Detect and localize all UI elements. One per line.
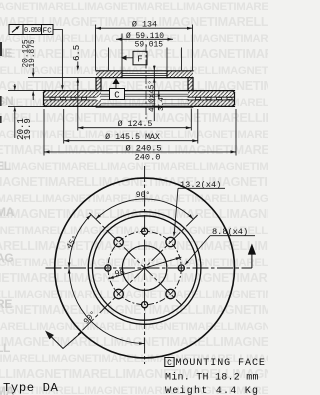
wire hat skirt bottom edge (96, 107, 193, 109)
arc 90 top arrows (96, 214, 101, 219)
hat outer circle (92, 216, 196, 320)
wire extension lines hub recess (109, 48, 182, 71)
leader 13.2 (174, 188, 225, 234)
dimension dia134 lines (96, 25, 193, 71)
leader 8.8 arrow (185, 261, 189, 266)
bolt hole 13.2 SE (166, 289, 175, 298)
wire hat wall right (188, 78, 193, 91)
hole 8.8 S (142, 302, 148, 308)
diagonal centreline NE-SW (78, 215, 198, 335)
bolt hole 13.2 SW (114, 289, 123, 298)
datum C triangle (112, 78, 119, 84)
svg-text:19.9: 19.9 (23, 118, 33, 140)
datum frame F box (133, 51, 147, 65)
hole 8.8 E (178, 265, 184, 271)
svg-text:C: C (114, 90, 120, 100)
dimension 98 line (108, 257, 181, 279)
dimension dia59 arrows (116, 38, 122, 41)
svg-text:MAGNETIMARELLIMAGNETIMARELLIMA: MAGNETIMARELLIMAGNETIMARELLIMAGNETIMAREL… (0, 193, 268, 205)
dimension 3.4 lines (158, 91, 160, 110)
hole 8.8 N (142, 228, 148, 234)
dimension dia124.5 lines (78, 78, 192, 131)
svg-text:MAGNETIMARELLIMAGNETIMARELLIMA: MAGNETIMARELLIMAGNETIMARELLIMAGNETIMAREL… (0, 289, 268, 301)
arc 45 arrows (68, 263, 71, 269)
dimension dia240 arrows (44, 150, 50, 153)
svg-text:AG: AG (0, 251, 13, 265)
svg-text:19.875: 19.875 (29, 39, 37, 67)
dimension 20.1 lines (8, 84, 44, 138)
svg-text:GN: GN (0, 94, 13, 108)
bolt hole 13.2 NE (166, 237, 175, 246)
vent vanes in slot (50, 97, 55, 99)
svg-text:MAGNETIMARELLIMAGNETIMARELLIMA: MAGNETIMARELLIMAGNETIMARELLIMAGNETIMAREL… (0, 271, 268, 285)
rotation leader (50, 333, 82, 349)
tolerance frame box (9, 25, 53, 35)
svg-text:LL: LL (0, 341, 10, 355)
svg-text:MAGNETIMARELLIMAGNETIMARELLIMA: MAGNETIMARELLIMAGNETIMARELLIMAGNETIMAREL… (0, 1, 268, 13)
svg-text:F: F (137, 55, 142, 65)
wire ring inboard friction surface (44, 105, 235, 107)
wire hat interior lines (101, 99, 188, 104)
leader arrow (61, 85, 64, 90)
svg-text:Weight 4.4 Kg: Weight 4.4 Kg (165, 385, 259, 395)
dimension 6.5 lines (77, 62, 79, 87)
svg-text:MAGNETIMARELLIMAGNETIMARELLIMA: MAGNETIMARELLIMAGNETIMARELLIMAGNETIMAREL… (0, 239, 268, 253)
svg-text:MAGNETIMARELLIMAGNETIMARELLIMA: MAGNETIMARELLIMAGNETIMARELLIMAGNETIMAREL… (0, 161, 268, 173)
dimension dia145.5 arrows (64, 139, 69, 142)
dimension dia59 lines (116, 34, 173, 71)
centre bore circle (122, 246, 167, 291)
dimension dia145.5 lines (64, 109, 198, 144)
datum C reference box (165, 358, 174, 367)
svg-text:C: C (167, 360, 172, 368)
wire ring OD right edge with chamfers (232, 91, 234, 107)
dimension 3.4 arrows (158, 95, 160, 100)
dimension dia240 lines (44, 109, 236, 156)
svg-text:0.050: 0.050 (24, 27, 41, 35)
leader from tolerance frame (53, 30, 62, 86)
wire ring OD left edge with chamfers (44, 91, 46, 107)
hole 8.8 W (105, 265, 111, 271)
svg-text:MAGNETIMARELLIMAGNETIMARELLIMA: MAGNETIMARELLIMAGNETIMARELLIMAGNETIMAREL… (0, 257, 268, 269)
dimension 98 arrows (108, 276, 114, 279)
svg-text:Min. TH 18.2 mm: Min. TH 18.2 mm (165, 372, 259, 384)
svg-text:Ø 134: Ø 134 (132, 19, 157, 29)
svg-text:MA: MA (0, 205, 15, 219)
runout symbol (12, 27, 19, 33)
dimension arc 90 top (96, 199, 194, 219)
svg-text:6.5: 6.5 (72, 45, 82, 61)
svg-text:4.0x45°: 4.0x45° (148, 80, 157, 112)
diagonal centreline NW-SE (89, 213, 181, 305)
ring inner diameter circle (88, 212, 201, 325)
pointer stem right (251, 254, 253, 268)
svg-text:MAGNETIMARELLIMAGNETIMARELLIMA: MAGNETIMARELLIMAGNETIMARELLIMAGNETIMAREL… (0, 175, 268, 189)
dimension 20.125 lines (32, 68, 34, 100)
dimension 4.0x45 arrows (153, 66, 156, 71)
leader 8.8 (186, 236, 255, 264)
dimension 6.5 arrows (77, 66, 80, 71)
rotation arrow head (45, 331, 54, 340)
dimension 20.125 arrows (32, 73, 35, 78)
svg-text:FC: FC (43, 28, 53, 36)
datum C stem (115, 84, 117, 89)
datum F leader arrow (127, 57, 134, 59)
wire centre bore walls (122, 71, 167, 78)
svg-text:Ø 145.5 MAX: Ø 145.5 MAX (105, 132, 160, 142)
datum C box (110, 89, 125, 100)
svg-text:MOUNTING FACE: MOUNTING FACE (176, 358, 266, 369)
bolt circle dia 98 (108, 231, 181, 304)
disc outer circle (55, 178, 235, 358)
tolerance frame dividers (23, 25, 42, 35)
bolt hole 13.2 NW (114, 237, 123, 246)
edge artifacts (0, 42, 2, 56)
svg-text:240.0: 240.0 (135, 152, 161, 162)
wire hat flange bottom mounting face (96, 77, 193, 79)
svg-text:MAGNETIMARELLIMAGNETIMARELLIMA: MAGNETIMARELLIMAGNETIMARELLIMAGNETIMAREL… (0, 303, 268, 317)
svg-text:MAGNETIMARELLIMAGNETIMARELLIMA: MAGNETIMARELLIMAGNETIMARELLIMAGNETIMAREL… (0, 207, 268, 221)
pointer arrow up (248, 244, 256, 255)
svg-text:Ø 124.5: Ø 124.5 (118, 119, 153, 129)
horizontal centreline (46, 267, 252, 269)
svg-text:59.015: 59.015 (135, 40, 164, 49)
hatching of cut material (96, 71, 122, 78)
svg-text:90°: 90° (136, 191, 150, 200)
svg-text:EL: EL (0, 159, 11, 173)
svg-text:MAGNETIMARELLIMAGNETIMARELLIMA: MAGNETIMARELLIMAGNETIMARELLIMAGNETIMAREL… (0, 335, 268, 349)
dimension arc 45 (69, 215, 91, 268)
leader 13.2 arrow (173, 232, 176, 237)
svg-text:Type DA: Type DA (3, 381, 58, 395)
svg-text:3.4: 3.4 (158, 97, 166, 111)
wire mounting face extension line (28, 77, 96, 79)
wire vent slot top line (44, 96, 235, 98)
wire vent slot bottom line (44, 99, 235, 101)
wire hat interior step lines (101, 94, 188, 96)
arc 90 bottom arrows (68, 268, 71, 274)
dimension dia124.5 arrows (78, 126, 84, 129)
wire section centreline (145, 44, 147, 119)
dimension arc 90 bottom (69, 268, 145, 344)
dimension dia134 arrows (96, 27, 102, 30)
wire bore chamfer edges (122, 73, 167, 75)
wire hat wall left (96, 78, 101, 91)
wire ring outboard friction surface (44, 90, 235, 92)
svg-text:RE: RE (0, 297, 12, 311)
wire hat flange top face (96, 70, 193, 72)
dimension 4.0x45 lines (153, 66, 155, 122)
dimension 20.1 arrows (14, 86, 17, 91)
vertical centreline (144, 166, 146, 364)
